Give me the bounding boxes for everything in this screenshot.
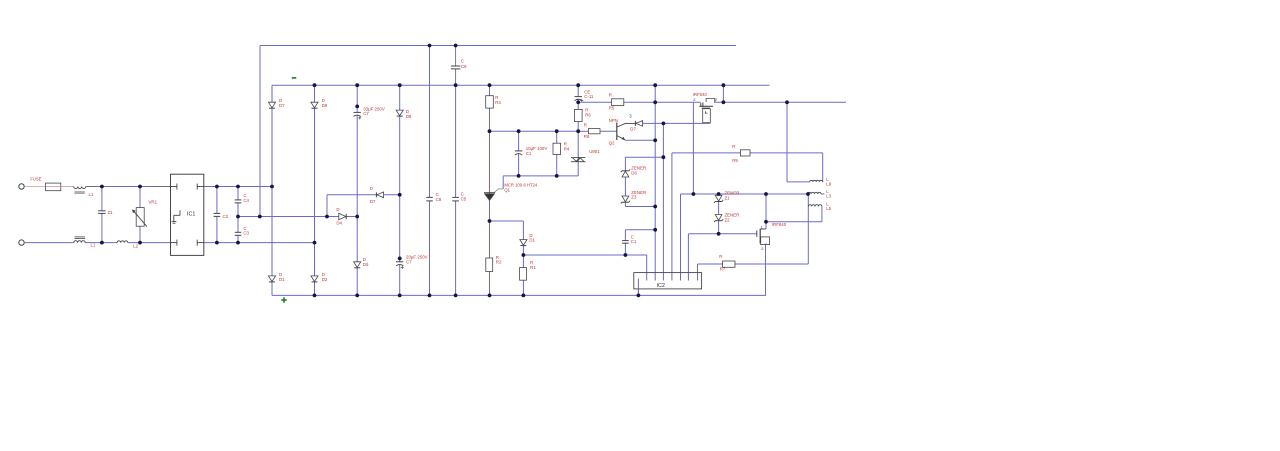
svg-text:D2: D2 bbox=[322, 277, 328, 282]
svg-text:D7: D7 bbox=[630, 127, 636, 132]
svg-text:L2: L2 bbox=[133, 244, 138, 249]
svg-text:R5: R5 bbox=[609, 105, 615, 110]
svg-text:3: 3 bbox=[629, 114, 632, 119]
svg-text:D7: D7 bbox=[370, 199, 376, 204]
svg-text:D5: D5 bbox=[363, 262, 369, 267]
svg-text:Z1: Z1 bbox=[108, 210, 114, 215]
svg-text:U801: U801 bbox=[589, 149, 600, 154]
svg-text:D1: D1 bbox=[279, 277, 285, 282]
svg-text:NPN: NPN bbox=[609, 118, 618, 123]
svg-text:D8: D8 bbox=[406, 114, 412, 119]
svg-text:IC2: IC2 bbox=[657, 283, 665, 289]
svg-text:VR1: VR1 bbox=[149, 200, 158, 205]
svg-text:D: D bbox=[370, 186, 373, 191]
svg-text:C7: C7 bbox=[406, 259, 412, 264]
svg-text:C7: C7 bbox=[363, 111, 369, 116]
svg-text:R9: R9 bbox=[732, 158, 738, 163]
svg-text:C3: C3 bbox=[243, 230, 249, 235]
svg-text:L1: L1 bbox=[89, 192, 94, 197]
svg-text:R: R bbox=[732, 144, 735, 149]
svg-text:R3: R3 bbox=[495, 100, 501, 105]
svg-text:L3: L3 bbox=[826, 194, 831, 199]
svg-text:2: 2 bbox=[715, 97, 718, 102]
svg-text:C: C bbox=[461, 59, 464, 64]
svg-text:IC1: IC1 bbox=[187, 212, 195, 218]
svg-text:C5: C5 bbox=[461, 196, 467, 201]
svg-text:1: 1 bbox=[761, 226, 763, 230]
svg-text:R: R bbox=[609, 92, 612, 97]
svg-text:2: 2 bbox=[693, 97, 696, 102]
svg-text:R1: R1 bbox=[530, 265, 536, 270]
svg-text:R: R bbox=[719, 254, 722, 259]
svg-text:Z1: Z1 bbox=[725, 195, 731, 200]
svg-text:R6: R6 bbox=[585, 112, 591, 117]
svg-text:R4: R4 bbox=[564, 146, 570, 151]
svg-text:D1: D1 bbox=[529, 238, 535, 243]
svg-text:R7: R7 bbox=[720, 266, 726, 271]
svg-text:D9: D9 bbox=[322, 103, 328, 108]
svg-text:C8: C8 bbox=[436, 197, 442, 202]
svg-text:C1: C1 bbox=[526, 151, 532, 156]
svg-text:Z2: Z2 bbox=[725, 217, 731, 222]
svg-text:C4: C4 bbox=[243, 198, 249, 203]
svg-text:FUSE: FUSE bbox=[30, 177, 41, 182]
svg-text:2: 2 bbox=[761, 246, 764, 251]
svg-text:C-11: C-11 bbox=[584, 94, 594, 99]
svg-text:L1: L1 bbox=[91, 242, 96, 247]
svg-text:L8: L8 bbox=[826, 182, 831, 187]
svg-text:C2: C2 bbox=[223, 214, 229, 219]
svg-text:D: D bbox=[336, 207, 339, 212]
svg-text:R: R bbox=[584, 123, 587, 128]
svg-text:R2: R2 bbox=[496, 259, 502, 264]
svg-text:Q2: Q2 bbox=[609, 141, 615, 146]
svg-text:Q1: Q1 bbox=[504, 188, 510, 193]
svg-text:C1: C1 bbox=[631, 239, 637, 244]
svg-text:R8: R8 bbox=[584, 134, 590, 139]
svg-text:C9: C9 bbox=[461, 64, 467, 69]
svg-text:IRF840: IRF840 bbox=[772, 222, 787, 227]
svg-text:D6: D6 bbox=[631, 170, 637, 175]
svg-text:Z3: Z3 bbox=[631, 195, 637, 200]
svg-text:D4: D4 bbox=[336, 221, 342, 226]
svg-text:D7: D7 bbox=[279, 103, 285, 108]
svg-text:L5: L5 bbox=[826, 206, 831, 211]
